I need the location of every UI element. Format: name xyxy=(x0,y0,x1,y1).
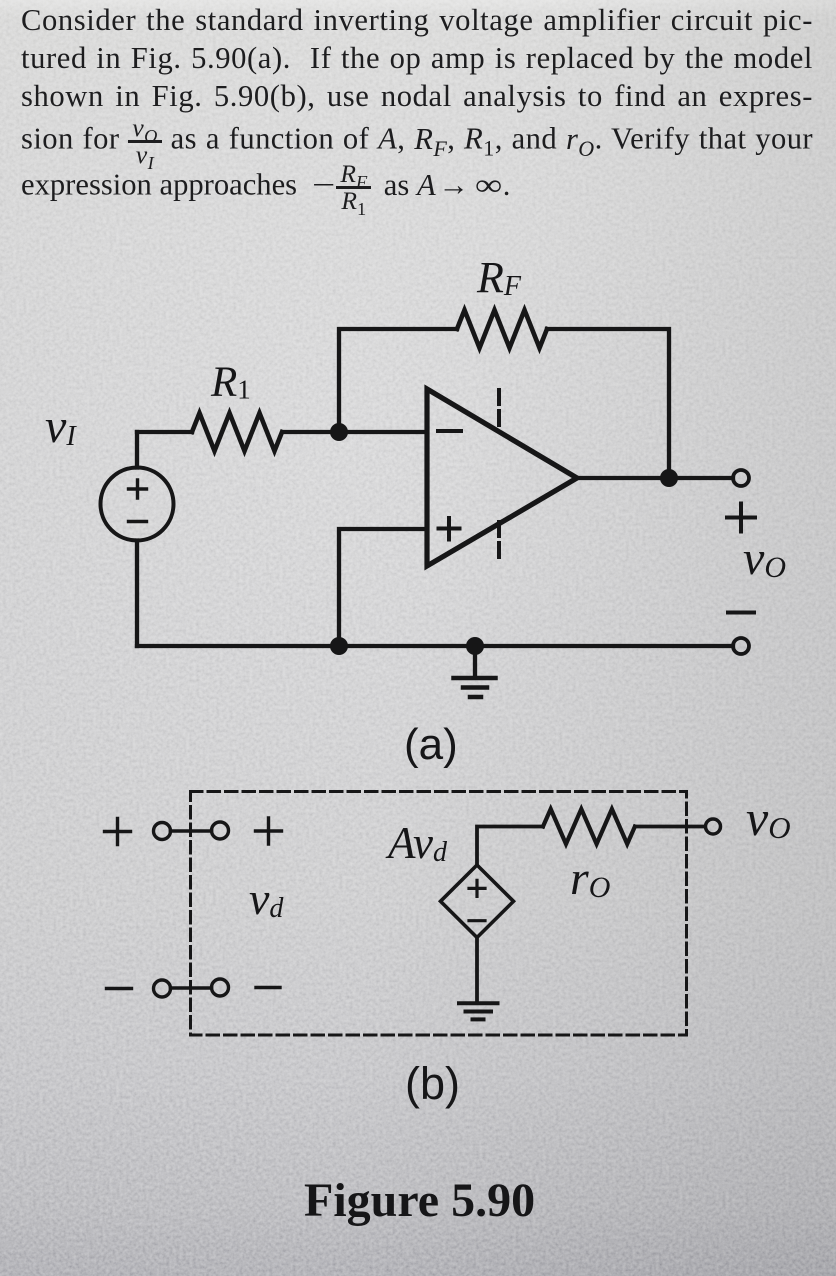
wire: vd- terminal pair xyxy=(171,986,212,990)
label vd xyxy=(249,872,283,925)
wire: source bottom to ground rail xyxy=(135,541,139,647)
terminal: vd+ outer open circle xyxy=(154,823,171,840)
label vO (a) xyxy=(743,531,786,586)
wire: diamond bottom stub xyxy=(475,938,479,1002)
voltage source vI xyxy=(101,468,174,541)
label + of vO xyxy=(727,504,755,532)
wire: source top stub xyxy=(135,432,139,468)
terminal: vd- outer open circle xyxy=(154,980,171,997)
resistor RF xyxy=(457,310,547,348)
label + outer top-left xyxy=(105,819,131,845)
wire: op-amp output xyxy=(577,476,733,480)
ground (a) xyxy=(454,646,496,697)
wire: bottom rail xyxy=(137,644,733,648)
paragraph line 2 xyxy=(21,41,813,111)
paragraph line 3 xyxy=(21,79,813,149)
label Figure 5.90 xyxy=(304,1173,535,1228)
wire: input from source top to R1 xyxy=(137,430,192,434)
label rO xyxy=(570,851,610,906)
node: output junction xyxy=(660,469,678,487)
wire: feedback down to output node xyxy=(547,329,669,478)
wire: vd+ terminal pair xyxy=(171,829,212,833)
dashed model box xyxy=(191,792,687,1036)
label - of vO xyxy=(728,611,754,615)
wire: non-inverting input to ground rail xyxy=(339,529,427,646)
terminal: vd- inner open circle xyxy=(212,979,229,996)
resistor rO xyxy=(543,809,635,844)
resistor R1 xyxy=(192,413,282,451)
label R1 xyxy=(211,358,251,407)
wire: feedback up from node xyxy=(339,329,457,432)
terminal: vd+ inner open circle xyxy=(212,822,229,839)
label (a) xyxy=(404,720,458,770)
label RF xyxy=(477,252,521,303)
node: non-inverting rail junction xyxy=(330,637,348,655)
op-amp U1 xyxy=(427,389,577,566)
wire: R1 to op-amp inverting input xyxy=(284,430,427,434)
label - outer bottom-left xyxy=(107,987,132,990)
terminal: vO+ open circle xyxy=(733,470,749,486)
ground (b) xyxy=(459,1003,498,1019)
label vI xyxy=(45,399,76,454)
label - inner bottom-left xyxy=(256,986,280,989)
paragraph line 1 xyxy=(21,3,813,73)
wire: diamond top to rO xyxy=(477,827,543,866)
paragraph line 4 xyxy=(21,117,813,201)
terminal: vO open circle (b) xyxy=(706,819,721,834)
label Avd xyxy=(388,817,447,869)
dependent source Avd (diamond) xyxy=(441,865,514,938)
wire: rO to vO terminal xyxy=(635,825,705,829)
terminal: vO- open circle xyxy=(733,638,749,654)
node: inverting input junction xyxy=(330,423,348,441)
label (b) xyxy=(405,1058,460,1110)
label vO (b) xyxy=(746,789,791,847)
label + inner top-left xyxy=(256,818,282,844)
paragraph line 5 xyxy=(21,163,813,212)
node: ground junction xyxy=(466,637,484,655)
